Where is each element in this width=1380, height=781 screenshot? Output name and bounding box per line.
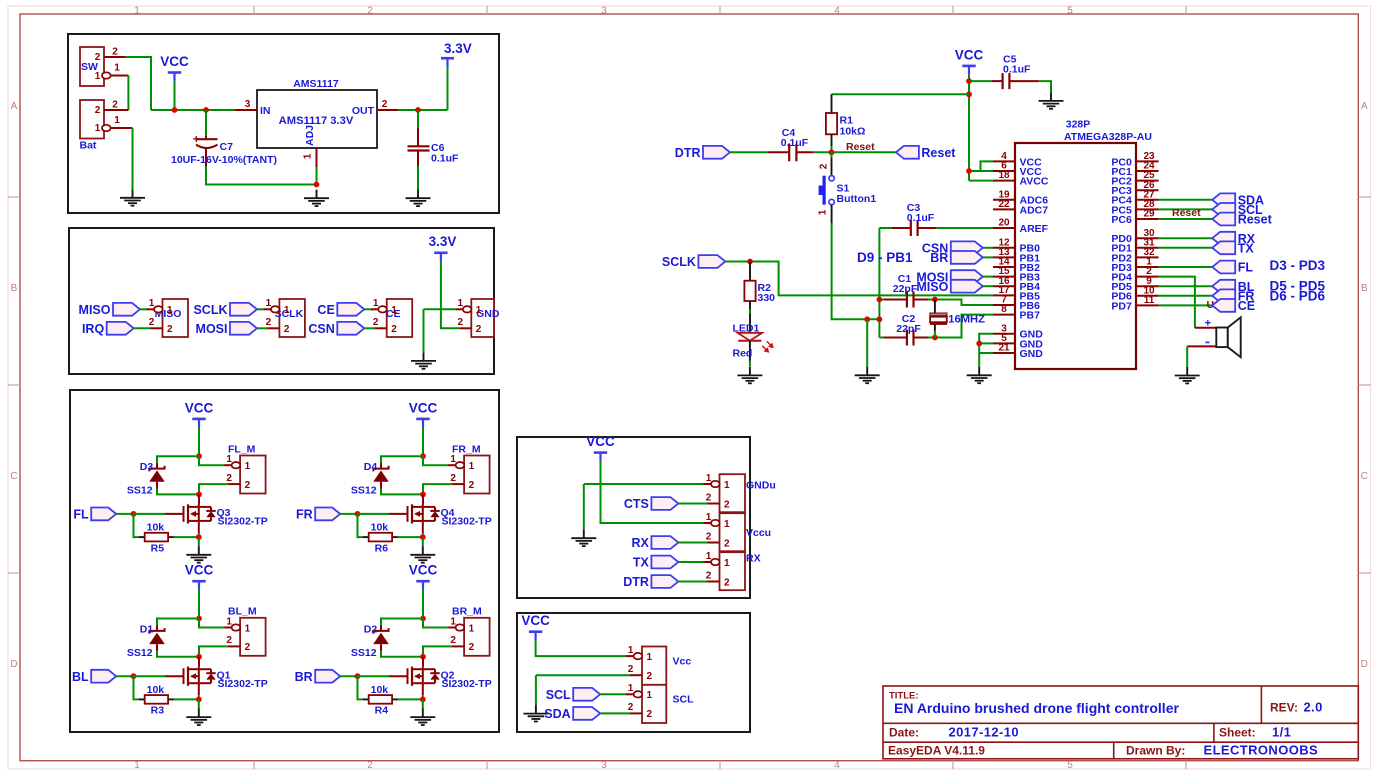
svg-text:10k: 10k [371, 522, 389, 534]
svg-text:D9 - PB1: D9 - PB1 [857, 250, 913, 265]
junction C7 / input bus [203, 107, 209, 113]
U2 pin 1 (PD3) [1111, 257, 1158, 274]
net flag RX [632, 536, 679, 550]
junction gate node [131, 511, 137, 517]
wire CE [364, 308, 370, 310]
svg-text:SCLK: SCLK [662, 255, 696, 269]
net flag BR [930, 251, 983, 265]
svg-text:SI2302-TP: SI2302-TP [218, 516, 268, 528]
switch S1 Button1 [818, 152, 877, 223]
U2 pin 27 (PC4) [1111, 189, 1158, 206]
U2 pin 5 (GND) [993, 333, 1043, 350]
net flag DTR [675, 146, 730, 160]
wire SW pin1 to Bat pin2 [127, 76, 129, 111]
wire OUT to 3.3V [398, 109, 447, 111]
FTDI connector section border [517, 437, 750, 598]
wire Reset to flag [1159, 218, 1213, 220]
wire CE to flag [1159, 304, 1213, 306]
wire ADJ to ground node [316, 167, 318, 184]
svg-text:VCC: VCC [409, 563, 438, 578]
svg-text:CSN: CSN [308, 322, 334, 336]
svg-text:C7: C7 [220, 141, 234, 153]
wire VCC to BR_M pin1 [423, 619, 448, 628]
svg-text:2: 2 [476, 324, 482, 335]
svg-text:2: 2 [373, 317, 379, 328]
resistor R5 10k [139, 522, 174, 555]
wire source down [198, 521, 200, 533]
svg-text:2: 2 [458, 317, 464, 328]
svg-text:1: 1 [706, 512, 712, 523]
wire flag to gate node [340, 513, 357, 515]
transistor Q3 SI2302-TP [165, 504, 268, 528]
svg-text:1: 1 [226, 454, 232, 465]
wire R2 to LED1 [749, 310, 751, 314]
junction source / resistor [196, 697, 202, 703]
junction motor node [420, 492, 426, 498]
U2 pin 28 (PC5) [1111, 199, 1158, 216]
wire BR to PB1 [983, 256, 993, 258]
wire to diode D3 cathode [157, 456, 199, 463]
wire pin 5 [979, 342, 993, 344]
wire GNDu pin1 [584, 483, 704, 485]
svg-text:2.0: 2.0 [1304, 700, 1323, 715]
svg-text:2: 2 [706, 531, 712, 542]
svg-text:SI2302-TP: SI2302-TP [442, 678, 492, 690]
svg-text:1: 1 [818, 209, 829, 215]
svg-text:1: 1 [706, 473, 712, 484]
svg-text:FR: FR [296, 508, 313, 522]
capacitor C6 0.1uF [408, 110, 460, 166]
I2C connector section border [517, 613, 750, 732]
U2 pin 26 (PC3) [1111, 180, 1158, 197]
svg-text:LED1: LED1 [733, 322, 760, 334]
svg-text:2017-12-10: 2017-12-10 [949, 724, 1020, 739]
svg-text:1: 1 [373, 298, 379, 309]
svg-text:BL: BL [72, 670, 89, 684]
wire VCC rail down [968, 75, 970, 181]
wire flag to gate node [116, 513, 133, 515]
svg-text:OUT: OUT [352, 105, 375, 117]
wire R3 to source [174, 698, 199, 700]
svg-text:2: 2 [469, 480, 475, 491]
resistor R6 10k [363, 522, 398, 555]
diode D2 SS12 [351, 623, 389, 659]
svg-text:2: 2 [284, 324, 290, 335]
wire LED1 to ground [749, 361, 751, 367]
wire header pin2 [536, 674, 630, 676]
junction gate node [355, 673, 361, 679]
wire source to junction [422, 695, 424, 699]
microcontroller U2 ATMEGA328P-AU [1015, 119, 1152, 370]
net flag CTS [624, 497, 679, 511]
ground (MCU) [967, 367, 992, 384]
junction VCC / diode / motor pin1 [196, 616, 202, 622]
svg-text:1: 1 [134, 760, 140, 771]
svg-text:C: C [10, 471, 17, 482]
svg-text:C: C [1361, 471, 1368, 482]
wire MISO [140, 308, 147, 310]
U2 pin 22 (ADC7) [993, 199, 1048, 216]
U2 pin 4 (VCC) [993, 151, 1042, 168]
svg-text:A: A [1361, 101, 1368, 112]
wire to ground [866, 319, 868, 366]
svg-text:5: 5 [1067, 6, 1073, 17]
svg-text:ATMEGA328P-AU: ATMEGA328P-AU [1064, 131, 1152, 143]
net flag FL [73, 508, 116, 522]
transistor Q1 SI2302-TP [165, 666, 268, 690]
svg-text:AMS1117 3.3V: AMS1117 3.3V [279, 115, 354, 127]
svg-text:D6 - PD6: D6 - PD6 [1270, 289, 1326, 304]
power flag VCC (FTDI) [586, 434, 615, 461]
wire GND pins rail [979, 334, 993, 367]
net flag BL [1212, 280, 1255, 294]
svg-text:3: 3 [601, 6, 607, 17]
speaker U1 (buzzer) [1187, 317, 1241, 357]
svg-text:2: 2 [95, 52, 101, 63]
svg-text:10k: 10k [147, 522, 165, 534]
wire gate node to R6 [358, 514, 364, 537]
connector P SCLK [263, 298, 305, 337]
net flag TX [1212, 241, 1254, 255]
svg-text:16MHZ: 16MHZ [948, 314, 985, 326]
net flag CE [317, 303, 364, 317]
svg-text:1: 1 [458, 298, 464, 309]
diode D1 SS12 [127, 623, 165, 659]
ground (C5) [1039, 92, 1064, 109]
svg-text:2: 2 [245, 642, 251, 653]
svg-text:D1: D1 [140, 623, 154, 635]
junction motor node [196, 492, 202, 498]
svg-text:Vccu: Vccu [746, 527, 771, 539]
net flag FR [1212, 289, 1254, 303]
wire Bat pin1 to ground [132, 128, 134, 189]
svg-text:SI2302-TP: SI2302-TP [218, 678, 268, 690]
net flag FR [296, 508, 340, 522]
transistor Q2 SI2302-TP [389, 666, 492, 690]
ground (S1 / AREF rail) [855, 367, 880, 384]
svg-text:4: 4 [834, 760, 840, 771]
wire S1 to ground rail [832, 224, 880, 320]
wire C5 to ground [1039, 81, 1051, 92]
svg-text:Button1: Button1 [837, 193, 877, 205]
connector RX header [704, 551, 746, 590]
svg-text:Bat: Bat [80, 140, 97, 152]
ground (FR driver) [410, 546, 435, 563]
wire PD4 to speaker + [1159, 277, 1195, 328]
capacitor C3 0.1uF [879, 202, 936, 236]
wire VCC down [198, 428, 200, 457]
wire VCC to Vccu pin1 [601, 461, 704, 523]
wire motor node to drain [198, 494, 200, 504]
wire source to junction [198, 533, 200, 537]
wire gate [358, 675, 390, 677]
svg-text:SS12: SS12 [351, 485, 377, 497]
connector BR_M (motor) [448, 616, 490, 656]
wire R4 to source [398, 698, 423, 700]
connector P MISO [147, 298, 189, 337]
svg-text:MISO: MISO [79, 303, 111, 317]
wire BL to flag [1159, 285, 1213, 287]
regulator U3 AMS1117 [235, 78, 399, 167]
junction source / resistor [420, 534, 426, 540]
svg-text:1: 1 [303, 153, 314, 159]
wire gate [134, 513, 166, 515]
wire to diode D4 cathode [381, 456, 423, 463]
motor drivers section border [70, 390, 499, 732]
wire 3.3V flag down [447, 67, 449, 110]
U2 pin 16 (PB4) [993, 276, 1040, 293]
wire RX to flag [1159, 237, 1213, 239]
net flag Reset [1212, 213, 1272, 227]
wire to ground [535, 675, 537, 705]
resistor R4 10k [363, 684, 398, 717]
wire IRQ [134, 327, 151, 329]
junction R2 [747, 259, 753, 265]
svg-text:1: 1 [114, 115, 120, 126]
svg-text:BL_M: BL_M [228, 606, 257, 618]
svg-text:BR: BR [295, 670, 313, 684]
svg-text:2: 2 [628, 664, 634, 675]
ground (BL driver) [186, 709, 211, 726]
svg-text:2: 2 [95, 105, 101, 116]
wire R6 to source [398, 536, 423, 538]
connector BL_M (motor) [224, 616, 266, 656]
wire VCC down [198, 590, 200, 619]
svg-text:10UF-16V-10%(TANT): 10UF-16V-10%(TANT) [171, 154, 277, 166]
svg-text:2: 2 [149, 317, 155, 328]
connector SW [80, 47, 128, 87]
svg-text:11: 11 [1144, 295, 1155, 306]
svg-text:R6: R6 [375, 542, 389, 554]
svg-text:SDA: SDA [544, 707, 570, 721]
junction reset node [829, 149, 835, 155]
svg-text:B: B [11, 283, 18, 294]
U2 pin 32 (PD2) [1111, 247, 1158, 264]
svg-text:1: 1 [724, 558, 730, 569]
svg-text:SS12: SS12 [127, 647, 153, 659]
net flag MISO [79, 303, 140, 317]
U2 pin 7 (PB6) [993, 295, 1040, 312]
svg-text:1: 1 [95, 123, 101, 134]
U2 pin 13 (PB1) [993, 247, 1040, 264]
svg-text:D2: D2 [364, 623, 378, 635]
U2 pin 6 (VCC) [993, 161, 1042, 178]
svg-text:TX: TX [633, 556, 650, 570]
connector Vccu [704, 512, 746, 551]
wire C7 to ADJ node [206, 166, 317, 185]
net flag FL [1212, 261, 1253, 275]
junction C5 [966, 78, 972, 84]
net flag SCL [546, 688, 601, 702]
wire VCC rail to pin 6 [969, 170, 993, 172]
connector P SCL (I2C header) [626, 645, 666, 723]
svg-text:SCLK: SCLK [193, 303, 227, 317]
wire C3 to AREF [937, 227, 993, 229]
wire BR_M pin2 to motor node [423, 646, 452, 656]
junction VCC rail / AVCC [966, 168, 972, 174]
svg-text:GND: GND [1020, 348, 1044, 360]
U2 pin 11 (PD7) [1111, 295, 1158, 312]
wire R5 to source [174, 536, 199, 538]
svg-text:D3 - PD3: D3 - PD3 [1270, 258, 1326, 273]
wire to ground [423, 309, 425, 352]
wire ground rail vertical [878, 228, 880, 338]
svg-text:GNDu: GNDu [746, 480, 776, 492]
svg-text:0.1uF: 0.1uF [907, 212, 935, 224]
wire source to junction [422, 533, 424, 537]
wire CSN to PB0 [983, 247, 993, 249]
svg-text:10k: 10k [371, 684, 389, 696]
svg-text:2: 2 [706, 492, 712, 503]
svg-text:+: + [1205, 317, 1211, 329]
svg-text:Reset: Reset [1172, 207, 1201, 219]
svg-text:VCC: VCC [955, 47, 984, 62]
diode D4 SS12 [351, 461, 389, 497]
wire VCC rail to AVCC [969, 180, 993, 182]
svg-text:A: A [11, 101, 18, 112]
svg-text:1: 1 [724, 519, 730, 530]
svg-text:2: 2 [819, 163, 830, 169]
svg-text:Date:: Date: [889, 725, 919, 739]
junction motor node [196, 654, 202, 660]
U2 pin 17 (PB5) [993, 285, 1040, 302]
net flag TX [633, 556, 678, 570]
capacitor C1 22pF [879, 273, 928, 308]
junction gate node [355, 511, 361, 517]
svg-text:SS12: SS12 [351, 647, 377, 659]
LED LED1 Red [733, 314, 773, 361]
junction VCC / diode / motor pin1 [196, 453, 202, 459]
diode D3 SS12 [127, 461, 165, 497]
svg-text:ADJ: ADJ [304, 125, 316, 146]
wire source to junction [198, 695, 200, 699]
wire pin 4 to pin 6 [981, 161, 994, 171]
svg-text:AMS1117: AMS1117 [293, 78, 339, 90]
svg-text:21: 21 [998, 343, 1010, 354]
svg-text:1/1: 1/1 [1272, 724, 1291, 739]
U2 pin 23 (PC0) [1111, 151, 1158, 168]
net flag CE [1212, 299, 1255, 313]
ground (FTDI) [571, 530, 596, 547]
svg-text:1: 1 [469, 623, 475, 634]
svg-text:Reset: Reset [1238, 213, 1273, 227]
svg-text:FL_M: FL_M [228, 443, 256, 455]
ground (battery return) [120, 189, 145, 206]
svg-text:1: 1 [628, 683, 634, 694]
svg-text:10kΩ: 10kΩ [840, 126, 866, 138]
svg-text:10k: 10k [147, 684, 165, 696]
svg-text:VCC: VCC [185, 400, 214, 415]
svg-text:8: 8 [1001, 304, 1007, 315]
junction VCC / diode / motor pin1 [420, 616, 426, 622]
wire R1 to reset node [831, 146, 833, 152]
wire SCLK [257, 308, 263, 310]
wire MISO to PB4 [983, 285, 993, 287]
svg-text:Sheet:: Sheet: [1219, 725, 1256, 739]
wire MOSI to PB3 [983, 276, 993, 278]
svg-text:2: 2 [382, 99, 388, 110]
title block [883, 686, 1358, 759]
svg-text:22pF: 22pF [893, 283, 918, 295]
net flag SCLK [193, 303, 257, 317]
connector Bat [80, 100, 133, 152]
svg-text:330: 330 [758, 292, 776, 304]
U2 pin 10 (PD6) [1111, 285, 1158, 302]
U2 pin 8 (PB7) [993, 304, 1040, 321]
ground (radio) [411, 352, 436, 369]
wire source down [422, 521, 424, 533]
svg-text:Reset: Reset [921, 146, 956, 160]
svg-text:SS12: SS12 [127, 485, 153, 497]
wire SCLK to PB5 [725, 262, 993, 296]
net flag SDA [1212, 193, 1264, 207]
wire DTR to C4 [730, 151, 768, 153]
svg-text:R4: R4 [375, 705, 389, 717]
wire flag to gate node [340, 675, 357, 677]
wire FL_M pin2 to motor node [199, 484, 228, 494]
svg-text:0.1uF: 0.1uF [781, 137, 809, 149]
svg-text:1: 1 [149, 298, 155, 309]
svg-text:FL: FL [73, 508, 89, 522]
svg-text:1: 1 [706, 551, 712, 562]
svg-text:RX: RX [632, 536, 650, 550]
junction C1 / ground rail [877, 297, 883, 303]
svg-text:2: 2 [245, 480, 251, 491]
wire to ground [198, 537, 200, 546]
power flag VCC (BL driver) [185, 563, 214, 590]
wire SDA to flag [1159, 199, 1213, 201]
net flag SDA [544, 707, 600, 721]
net flag IRQ [82, 322, 134, 336]
svg-text:R5: R5 [151, 542, 165, 554]
net flag CSN [308, 322, 364, 336]
U2 pin 15 (PB3) [993, 266, 1040, 283]
junction C6 / OUT [415, 107, 421, 113]
power flag VCC (BR driver) [409, 563, 438, 590]
wire to diode D2 cathode [381, 619, 423, 626]
connector FL_M (motor) [224, 454, 266, 494]
svg-text:R3: R3 [151, 705, 165, 717]
wire motor node to drain [422, 657, 424, 667]
junction gate node [131, 673, 137, 679]
U2 pin 24 (PC1) [1111, 161, 1158, 178]
wire diode D1 anode to motor node [157, 651, 199, 657]
wire flag to gate node [116, 675, 133, 677]
svg-text:AREF: AREF [1020, 223, 1049, 235]
svg-text:2: 2 [266, 317, 272, 328]
wire FR to flag [1159, 295, 1213, 297]
wire TX [678, 561, 703, 563]
svg-text:CE: CE [317, 303, 334, 317]
wire CTS [678, 503, 707, 505]
U2 pin 20 (AREF) [993, 218, 1049, 235]
wire VCC to FR_M pin1 [423, 456, 448, 465]
svg-text:SCL: SCL [546, 688, 571, 702]
wire source down [198, 683, 200, 695]
svg-text:EN Arduino brushed drone fligh: EN Arduino brushed drone flight controll… [894, 700, 1179, 716]
connector FR_M (motor) [448, 454, 490, 494]
U2 pin 31 (PD1) [1111, 237, 1158, 254]
wire VCC to header pin1 [536, 640, 626, 656]
resistor R1 10kΩ [826, 94, 866, 146]
wire gate node to R5 [134, 514, 140, 537]
svg-text:2: 2 [647, 671, 653, 682]
svg-text:CE: CE [1238, 299, 1255, 313]
U2 pin 14 (PB2) [993, 257, 1040, 274]
wire VCC down [422, 590, 424, 619]
svg-text:2: 2 [367, 6, 373, 17]
wire to ground [583, 484, 585, 530]
